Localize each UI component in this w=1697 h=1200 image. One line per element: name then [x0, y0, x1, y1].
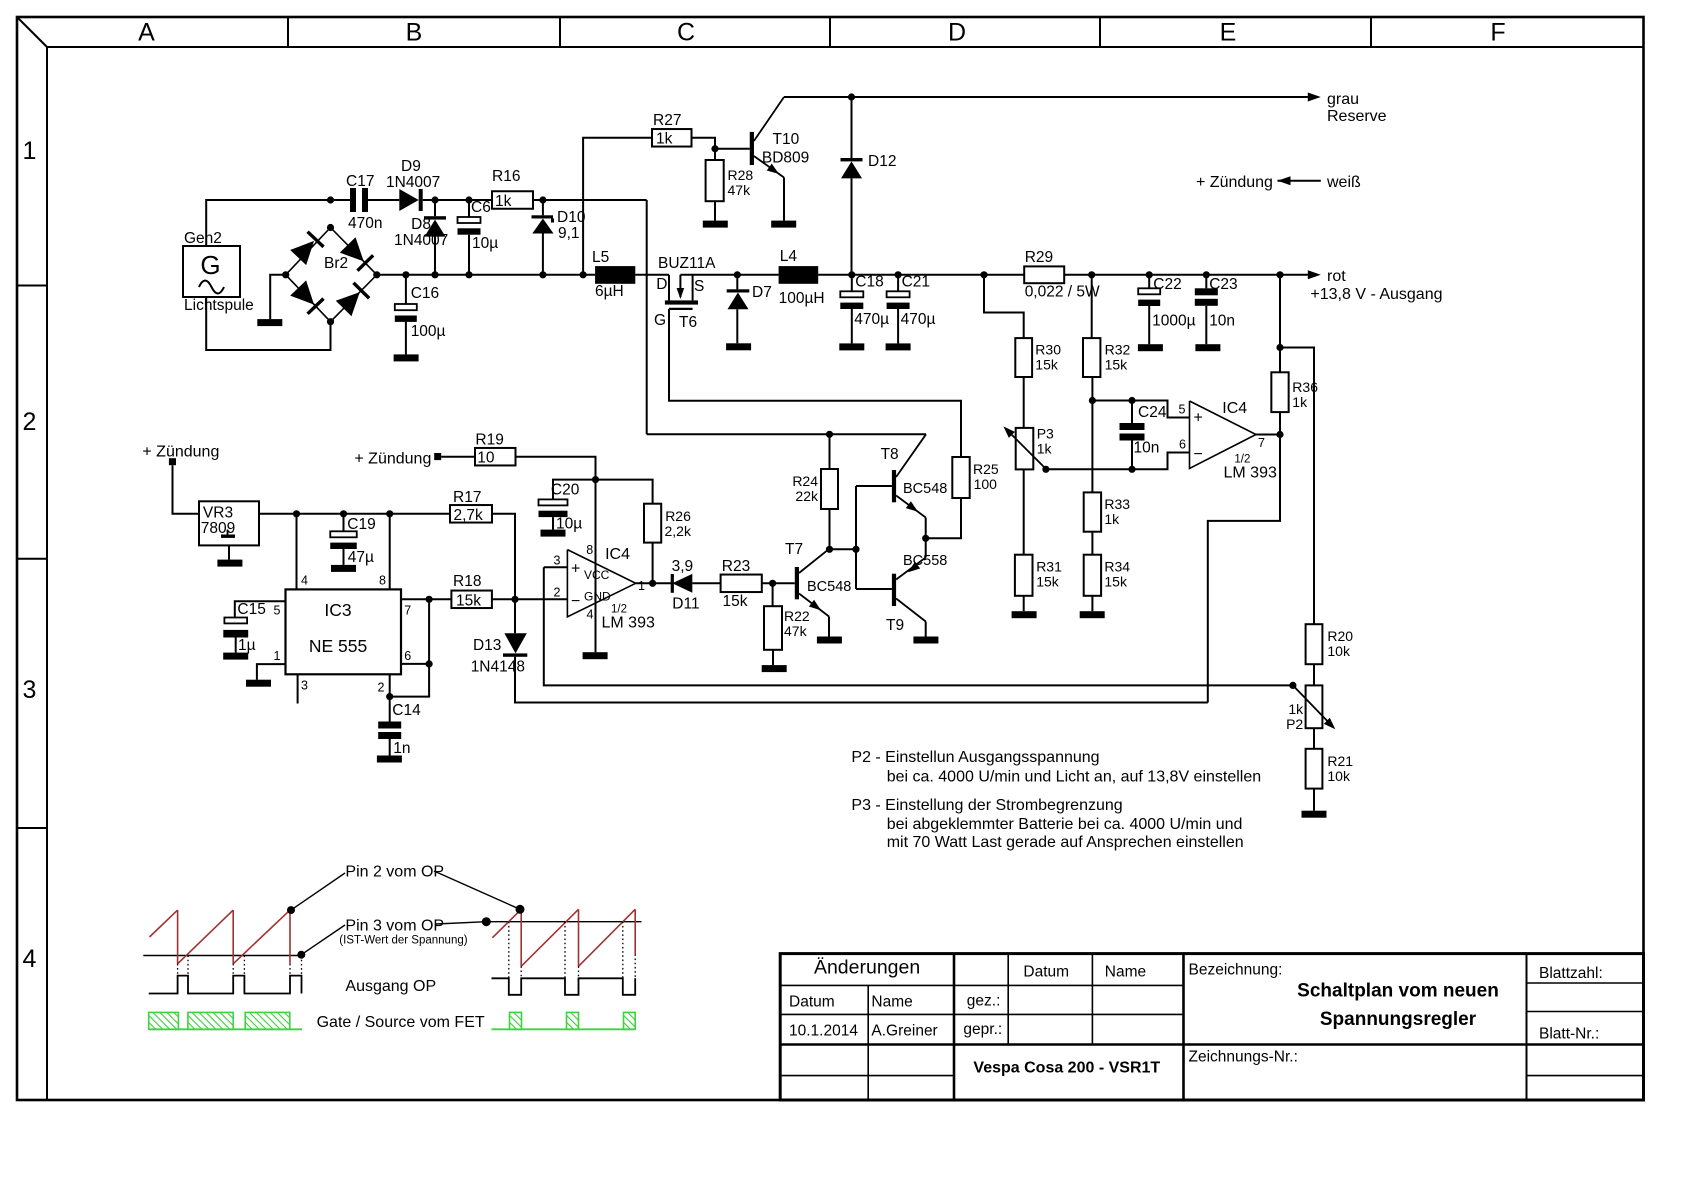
svg-text:R18: R18 [453, 573, 481, 590]
svg-text:3: 3 [23, 676, 37, 704]
svg-text:P2: P2 [1286, 716, 1303, 732]
svg-text:Schaltplan vom neuen: Schaltplan vom neuen [1297, 981, 1499, 1002]
svg-text:P3 - Einstellung der Strombegr: P3 - Einstellung der Strombegrenzung [851, 797, 1122, 814]
svg-text:gepr.:: gepr.: [963, 1021, 1002, 1038]
svg-text:C21: C21 [902, 274, 930, 291]
svg-text:D7: D7 [752, 284, 772, 301]
svg-text:+ Zündung: + Zündung [1196, 174, 1273, 191]
svg-text:T10: T10 [773, 131, 800, 148]
svg-text:Änderungen: Änderungen [814, 957, 920, 979]
svg-text:C16: C16 [411, 285, 439, 302]
svg-text:10n: 10n [1209, 313, 1235, 330]
svg-text:Gen2: Gen2 [184, 230, 222, 247]
svg-text:C19: C19 [347, 516, 375, 533]
svg-text:G: G [200, 250, 220, 280]
svg-text:R27: R27 [653, 112, 681, 129]
svg-text:Reserve: Reserve [1327, 108, 1387, 125]
svg-text:D11: D11 [672, 596, 699, 613]
svg-text:100µH: 100µH [779, 290, 825, 307]
svg-text:C17: C17 [346, 173, 374, 190]
svg-text:10.1.2014: 10.1.2014 [789, 1023, 858, 1040]
svg-text:Ausgang OP: Ausgang OP [345, 978, 436, 995]
svg-text:mit 70 Watt Last gerade auf An: mit 70 Watt Last gerade auf Ansprechen e… [887, 834, 1244, 851]
svg-text:3: 3 [301, 679, 308, 693]
svg-text:R19: R19 [475, 432, 503, 449]
svg-text:6µH: 6µH [595, 283, 624, 300]
svg-text:1k: 1k [1104, 511, 1120, 527]
svg-text:Br2: Br2 [324, 255, 348, 272]
svg-text:Blatt-Nr.:: Blatt-Nr.: [1539, 1026, 1599, 1043]
svg-text:Datum: Datum [1023, 964, 1069, 981]
svg-text:LM 393: LM 393 [602, 615, 655, 632]
svg-text:470µ: 470µ [901, 311, 936, 328]
svg-text:1N4007: 1N4007 [386, 174, 440, 191]
svg-text:Bezeichnung:: Bezeichnung: [1189, 962, 1283, 979]
svg-text:47k: 47k [728, 182, 752, 198]
svg-text:1k: 1k [1288, 701, 1304, 717]
svg-text:R23: R23 [722, 558, 750, 575]
svg-text:Pin 3 vom OP: Pin 3 vom OP [345, 918, 444, 935]
svg-text:(IST-Wert der Spannung): (IST-Wert der Spannung) [339, 935, 467, 947]
svg-text:1: 1 [638, 579, 645, 593]
svg-text:F: F [1490, 19, 1505, 47]
svg-text:D12: D12 [868, 153, 896, 170]
svg-text:C18: C18 [855, 274, 883, 291]
svg-text:−: − [1194, 446, 1203, 463]
svg-text:8: 8 [586, 543, 593, 557]
svg-text:R20: R20 [1327, 628, 1353, 644]
svg-text:L5: L5 [592, 249, 609, 266]
svg-text:C23: C23 [1209, 276, 1237, 293]
svg-text:R26: R26 [665, 508, 691, 524]
svg-text:1N4148: 1N4148 [471, 659, 525, 676]
svg-text:+13,8 V - Ausgang: +13,8 V - Ausgang [1310, 286, 1442, 303]
svg-text:T9: T9 [886, 617, 904, 634]
svg-text:D: D [656, 276, 667, 293]
svg-text:D9: D9 [401, 158, 421, 175]
svg-text:47k: 47k [784, 623, 808, 639]
svg-text:BC548: BC548 [807, 579, 851, 595]
svg-text:10k: 10k [1327, 768, 1351, 784]
svg-text:S: S [694, 278, 704, 295]
svg-text:BUZ11A: BUZ11A [658, 255, 716, 272]
svg-text:100: 100 [974, 476, 998, 492]
svg-text:R21: R21 [1327, 753, 1353, 769]
svg-text:15k: 15k [456, 593, 481, 610]
svg-text:R34: R34 [1104, 559, 1130, 575]
svg-text:IC3: IC3 [324, 600, 351, 620]
svg-text:1n: 1n [393, 740, 410, 757]
svg-text:C14: C14 [392, 702, 421, 719]
svg-text:3: 3 [554, 554, 561, 568]
svg-text:1k: 1k [1292, 394, 1308, 410]
svg-text:1000µ: 1000µ [1152, 313, 1195, 330]
svg-text:100µ: 100µ [411, 323, 446, 340]
svg-text:C6: C6 [471, 199, 491, 216]
svg-text:VR3: VR3 [203, 505, 233, 522]
svg-text:5: 5 [1179, 403, 1186, 417]
svg-text:1k: 1k [495, 193, 512, 210]
svg-text:C: C [677, 19, 695, 47]
svg-text:weiß: weiß [1326, 174, 1361, 191]
svg-text:R32: R32 [1105, 342, 1131, 358]
svg-text:BC548: BC548 [903, 481, 947, 497]
svg-text:Pin 2 vom OP: Pin 2 vom OP [345, 864, 444, 881]
svg-text:1N4007: 1N4007 [394, 232, 448, 249]
svg-text:1µ: 1µ [238, 637, 256, 654]
svg-text:15k: 15k [723, 593, 748, 610]
svg-text:L4: L4 [780, 248, 798, 265]
svg-text:10µ: 10µ [556, 516, 582, 533]
svg-text:Vespa Cosa 200 - VSR1T: Vespa Cosa 200 - VSR1T [973, 1060, 1160, 1077]
svg-text:R31: R31 [1036, 559, 1062, 575]
svg-text:R16: R16 [492, 168, 520, 185]
svg-text:gez.:: gez.: [967, 993, 1001, 1010]
svg-text:+: + [571, 561, 580, 578]
svg-text:NE 555: NE 555 [309, 636, 367, 656]
svg-text:R24: R24 [792, 473, 818, 489]
svg-text:15k: 15k [1035, 357, 1059, 373]
svg-text:Name: Name [1105, 964, 1146, 981]
svg-text:rot: rot [1327, 268, 1346, 285]
svg-text:10n: 10n [1134, 440, 1160, 457]
svg-text:8: 8 [379, 574, 386, 588]
svg-text:C22: C22 [1153, 276, 1181, 293]
svg-text:R17: R17 [453, 489, 481, 506]
svg-text:22k: 22k [795, 488, 819, 504]
svg-text:VCC: VCC [584, 568, 610, 582]
svg-text:47µ: 47µ [348, 549, 374, 566]
svg-text:D: D [948, 19, 966, 47]
svg-text:E: E [1220, 19, 1237, 47]
svg-text:470n: 470n [348, 215, 382, 232]
svg-text:Lichtspule: Lichtspule [184, 297, 254, 314]
svg-text:10µ: 10µ [472, 235, 498, 252]
svg-text:10k: 10k [1327, 643, 1351, 659]
svg-text:1k: 1k [656, 131, 673, 148]
svg-text:Datum: Datum [789, 994, 835, 1011]
svg-text:R25: R25 [973, 461, 999, 477]
svg-text:Name: Name [871, 994, 912, 1011]
svg-text:1k: 1k [1037, 441, 1053, 457]
svg-text:BD809: BD809 [762, 150, 809, 167]
svg-text:2: 2 [23, 408, 37, 436]
svg-text:C24: C24 [1138, 404, 1167, 421]
svg-text:+ Zündung: + Zündung [354, 451, 431, 468]
svg-text:Gate / Source vom FET: Gate / Source vom FET [317, 1014, 485, 1031]
svg-text:bei abgeklemmter Batterie bei: bei abgeklemmter Batterie bei ca. 4000 U… [887, 816, 1243, 833]
svg-text:6: 6 [404, 649, 411, 663]
svg-text:2: 2 [378, 681, 385, 695]
svg-text:T8: T8 [881, 446, 899, 463]
svg-text:B: B [406, 19, 423, 47]
svg-text:7: 7 [404, 604, 411, 618]
svg-text:6: 6 [1179, 438, 1186, 452]
svg-text:4: 4 [301, 574, 308, 588]
svg-text:P2 - Einstellun Ausgangsspannu: P2 - Einstellun Ausgangsspannung [851, 749, 1099, 766]
svg-text:4: 4 [587, 608, 594, 622]
svg-text:Spannungsregler: Spannungsregler [1320, 1009, 1477, 1030]
svg-text:7: 7 [1258, 436, 1265, 450]
svg-text:GND: GND [584, 590, 611, 604]
svg-text:4: 4 [23, 945, 37, 973]
svg-text:IC4: IC4 [1222, 400, 1247, 417]
svg-text:D8: D8 [411, 216, 431, 233]
svg-text:3,9: 3,9 [672, 558, 694, 575]
svg-text:IC4: IC4 [605, 546, 630, 563]
svg-text:15k: 15k [1104, 574, 1128, 590]
svg-text:bei ca. 4000 U/min und Licht a: bei ca. 4000 U/min und Licht an, auf 13,… [887, 769, 1261, 786]
svg-text:R22: R22 [784, 608, 810, 624]
svg-text:10: 10 [477, 450, 495, 467]
svg-text:+: + [1194, 410, 1203, 427]
svg-text:C20: C20 [551, 482, 580, 499]
svg-text:15k: 15k [1105, 357, 1129, 373]
svg-text:9,1: 9,1 [558, 225, 580, 242]
svg-text:Zeichnungs-Nr.:: Zeichnungs-Nr.: [1189, 1049, 1298, 1066]
svg-text:A: A [138, 19, 155, 47]
svg-text:2: 2 [554, 586, 561, 600]
svg-text:G: G [654, 312, 666, 329]
svg-text:+ Zündung: + Zündung [142, 444, 219, 461]
svg-text:T6: T6 [679, 314, 697, 331]
svg-text:D10: D10 [557, 209, 586, 226]
svg-text:C15: C15 [237, 601, 265, 618]
svg-text:R33: R33 [1104, 496, 1130, 512]
svg-text:7809: 7809 [201, 520, 235, 537]
svg-text:R30: R30 [1035, 342, 1061, 358]
svg-text:5: 5 [274, 604, 281, 618]
svg-text:2,2k: 2,2k [665, 523, 692, 539]
svg-text:0,022 / 5W: 0,022 / 5W [1025, 284, 1100, 301]
svg-text:D13: D13 [473, 637, 501, 654]
svg-text:BC558: BC558 [903, 553, 947, 569]
svg-text:R28: R28 [728, 167, 754, 183]
svg-text:R29: R29 [1025, 249, 1053, 266]
svg-text:P3: P3 [1037, 426, 1054, 442]
svg-text:470µ: 470µ [854, 311, 889, 328]
svg-text:2,7k: 2,7k [454, 507, 484, 524]
svg-text:−: − [571, 593, 580, 610]
svg-text:grau: grau [1327, 91, 1359, 108]
svg-text:LM 393: LM 393 [1224, 465, 1277, 482]
svg-text:A.Greiner: A.Greiner [871, 1023, 937, 1040]
svg-text:T7: T7 [785, 541, 803, 558]
svg-text:1: 1 [23, 137, 37, 165]
svg-text:Blattzahl:: Blattzahl: [1539, 965, 1603, 982]
svg-text:15k: 15k [1036, 574, 1060, 590]
svg-text:1: 1 [274, 649, 281, 663]
